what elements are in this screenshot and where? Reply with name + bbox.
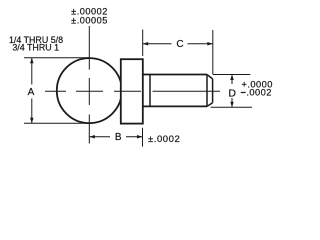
dim C arrow left bbox=[143, 42, 149, 46]
dim D arrow up bbox=[230, 75, 234, 81]
dim C dimension line bbox=[143, 43, 213, 45]
dim B extension line right bbox=[142, 128, 144, 147]
dim A extension line top bbox=[24, 57, 90, 59]
dim C arrow right bbox=[207, 42, 213, 46]
svg-text:−.0002: −.0002 bbox=[241, 88, 272, 98]
dim D arrow down bbox=[230, 102, 234, 108]
dim B arrow right bbox=[137, 135, 143, 139]
svg-text:3/4 THRU 1: 3/4 THRU 1 bbox=[12, 42, 59, 52]
chamfer start vertical line bbox=[206, 75, 208, 107]
svg-text:B: B bbox=[115, 132, 122, 143]
flange (shoulder) rectangle bbox=[121, 59, 143, 123]
dim D extension line top bbox=[213, 74, 250, 76]
dim A extension line bottom bbox=[24, 122, 90, 124]
shank bottom edge bbox=[143, 105, 207, 107]
dim C extension line right bbox=[212, 30, 214, 75]
svg-text:C: C bbox=[176, 39, 183, 50]
dim A dimension line bbox=[31, 58, 33, 123]
dim D extension line bottom bbox=[211, 106, 252, 108]
horizontal centerline bbox=[45, 90, 220, 92]
dim D dimension line bbox=[231, 75, 233, 108]
chamfer bottom diagonal bbox=[207, 103, 213, 107]
svg-text:A: A bbox=[28, 87, 35, 98]
vertical centerline / tolerance leader bbox=[88, 26, 90, 144]
thread relief vertical line bbox=[149, 75, 151, 107]
dim B dimension line bbox=[89, 136, 142, 138]
svg-text:±.00005: ±.00005 bbox=[71, 16, 108, 26]
ball (sphere) outline bbox=[57, 58, 122, 123]
shank top edge bbox=[143, 74, 207, 76]
dim A arrow up bbox=[30, 58, 34, 64]
svg-text:D: D bbox=[228, 87, 236, 99]
dim B arrow left bbox=[89, 135, 95, 139]
dim C extension line left bbox=[142, 30, 144, 57]
shank end face bbox=[212, 79, 214, 103]
chamfer top diagonal bbox=[207, 75, 213, 79]
dim A arrow down bbox=[30, 118, 34, 124]
svg-text:±.0002: ±.0002 bbox=[148, 134, 180, 145]
